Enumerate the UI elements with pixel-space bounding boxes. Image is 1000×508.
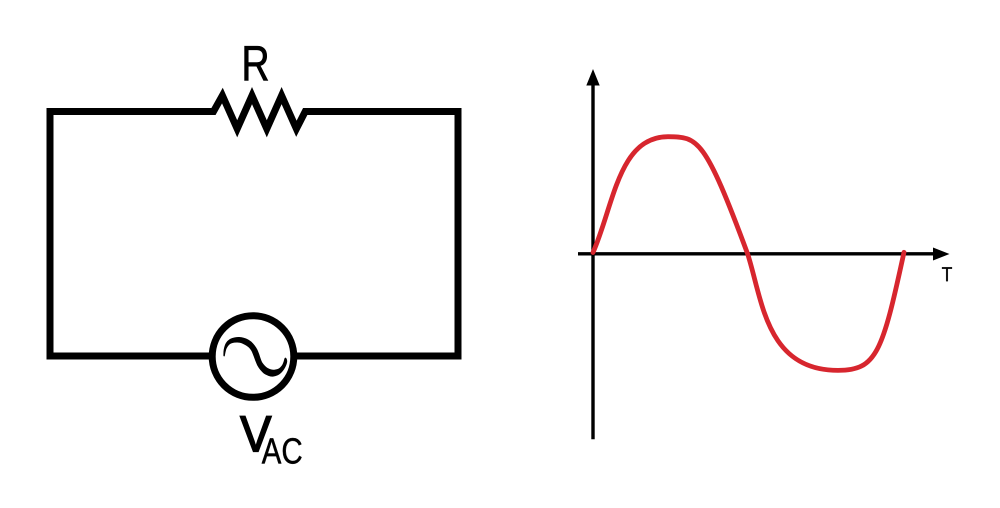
- wire: circuit loop right/bottom segment: [297, 112, 458, 357]
- AC source sine symbol: [224, 338, 286, 376]
- wire: circuit loop left/top segment: [50, 112, 214, 357]
- axis label T: [942, 267, 952, 281]
- label V_AC : AC subscript: [262, 438, 302, 464]
- label R: [245, 46, 268, 80]
- AC source V_AC circle: [212, 316, 294, 398]
- sine waveform: [593, 137, 904, 371]
- x-axis: [578, 248, 950, 261]
- resistor R: [206, 96, 312, 129]
- label V_AC : V: [240, 416, 271, 451]
- y-axis: [586, 69, 599, 439]
